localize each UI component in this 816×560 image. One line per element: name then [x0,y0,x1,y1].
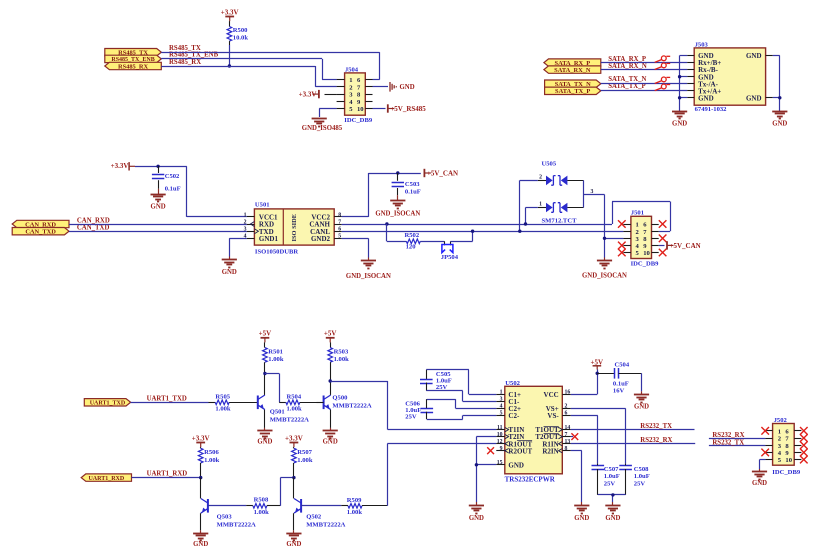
ground GND (J503 left) [672,112,687,128]
svg-text:R2IN: R2IN [542,447,558,455]
svg-text:8: 8 [338,212,341,218]
svg-text:2: 2 [565,404,568,410]
svg-text:9: 9 [500,446,503,452]
wire J504 pin10 to +5V_RS485 [373,108,386,110]
junction GND tap J501 pin3 [603,237,606,240]
resistor R506 [198,448,219,477]
no-connect X U502 R2OUT [487,447,494,454]
svg-text:MMBT2222A: MMBT2222A [332,402,371,409]
svg-text:Q501: Q501 [270,409,285,416]
svg-text:J503: J503 [695,42,709,49]
svg-text:R502: R502 [405,232,420,239]
junction C503 tap [396,171,399,174]
power +5V (U502) [591,358,604,369]
svg-text:10: 10 [785,457,792,464]
svg-text:VCC: VCC [544,391,559,399]
svg-text:15: 15 [497,460,503,466]
net label CAN_RXD [77,217,110,224]
svg-text:3: 3 [500,397,503,403]
port UART1_TXD [84,399,130,407]
svg-text:R508: R508 [254,497,269,504]
svg-text:0.1uF: 0.1uF [613,381,629,388]
transistor Q502 [294,478,346,531]
net label UART1_TXD [147,395,187,402]
capacitor C504 [597,362,641,395]
capacitor C502 [152,166,181,192]
net label RS232_RX (J502) [712,432,744,439]
svg-text:J504: J504 [345,66,359,73]
svg-text:4: 4 [500,404,503,410]
power +3.3V to J504 pin3 [299,90,337,99]
junction Q503 collector node [199,476,202,479]
svg-text:J501: J501 [631,210,644,217]
svg-text:RS485_RX: RS485_RX [118,63,149,70]
svg-text:CAN_RXD: CAN_RXD [77,217,110,224]
port CAN_TXD [12,228,69,236]
svg-text:GND: GND [672,121,687,128]
svg-text:+5V_CAN: +5V_CAN [670,242,701,250]
svg-text:C508: C508 [634,466,649,473]
svg-text:67491-1032: 67491-1032 [695,106,728,113]
svg-text:1.00k: 1.00k [287,406,303,413]
svg-text:5: 5 [338,234,341,240]
junction CANH to R502 [385,222,388,225]
junction J503 GND left pin7 [678,96,681,99]
svg-text:R504: R504 [287,393,302,400]
svg-text:6: 6 [338,227,341,233]
op-amp U502 TRS232ECPWR body [496,380,571,483]
wire R508 to Q502 collector node [280,478,294,506]
svg-text:ISO1050DUBR: ISO1050DUBR [255,248,298,255]
ground GND (J502) [752,469,767,487]
svg-text:IDC_DB9: IDC_DB9 [344,117,373,124]
wire R500 to RS485_RX [229,45,231,66]
wire SATA_TX_N to J503 [601,83,687,85]
svg-text:C2-: C2- [508,412,520,420]
svg-text:14: 14 [565,425,571,431]
svg-text:Q503: Q503 [217,514,233,521]
svg-text:Q500: Q500 [332,394,348,401]
wire SATA_RX_N to J503 [601,69,687,71]
resistor R503 [328,348,349,381]
net label SATA_RX_N [608,63,647,70]
capacitor C505 [420,370,496,402]
svg-text:GND: GND [151,203,166,210]
svg-text:UART1_TXD: UART1_TXD [90,401,126,407]
op-amp U501 ISO1050DUBR body [244,201,342,255]
power +5V_CAN (top) [424,169,458,178]
svg-text:GND: GND [634,404,649,411]
svg-text:1.00k: 1.00k [334,356,350,363]
transistor U505 (TVS bottom pair) [538,202,584,225]
svg-text:GND: GND [752,480,767,487]
no-connect X J502 pin1 [761,427,769,435]
svg-text:GND: GND [698,94,714,102]
svg-text:TRS232ECPWR: TRS232ECPWR [505,475,556,483]
ground GND (Q502) [286,530,301,548]
port RS485_TX_ENB [105,55,162,63]
svg-text:+5V: +5V [324,330,337,338]
power +5V_RS485 [388,104,426,113]
port SATA_TX_N [545,80,601,88]
wire SATA_TX_P to J503 [601,90,687,92]
svg-text:JP504: JP504 [441,254,459,261]
svg-text:25V: 25V [634,480,646,487]
ground GND_ISOCAN (C503) [375,195,420,217]
svg-text:U505: U505 [542,161,557,168]
net label UART1_RXD [147,471,188,478]
wire VS- to C507 [571,416,598,464]
svg-text:C503: C503 [405,181,420,188]
junction C507/C508 GND [611,493,614,496]
ground GND (Q500) [323,428,338,446]
svg-text:UART1_RXD: UART1_RXD [88,476,124,482]
wire CANL [342,231,624,233]
wire U501 VCC2 to +5V_CAN rail [342,173,421,217]
svg-text:1: 1 [349,77,352,84]
diff-pair crossover marks TX [655,77,671,91]
svg-text:R503: R503 [334,349,349,356]
svg-text:1.00k: 1.00k [297,457,313,464]
svg-text:GND: GND [508,461,524,469]
wire U505 pin3 to GND_ISOCAN and J501 pin3 [584,180,624,257]
transistor Q501 [258,374,309,428]
svg-text:10: 10 [643,250,650,257]
svg-text:16V: 16V [613,388,625,395]
svg-text:7: 7 [338,219,341,225]
net label SATA_TX_P [608,83,646,90]
svg-text:0.1uF: 0.1uF [165,186,181,193]
junction U505 pin1 CANH [524,222,527,225]
jumper JP504 [441,241,459,261]
svg-text:GND_ISO485: GND_ISO485 [302,125,343,132]
ground GND_ISO485 [302,119,343,132]
svg-text:1: 1 [539,202,542,208]
port RS485_RX [105,62,162,70]
svg-text:+3.3V: +3.3V [111,162,129,170]
wire JP504 to CANL [450,231,472,241]
junction U505 pin2 CANL [518,230,521,233]
wire SATA_RX_P to J503 [601,62,687,64]
no-connect X U502 T2OUT [571,433,578,440]
svg-text:U502: U502 [505,380,520,387]
wire RS485_TX to J504 pin6 [161,52,379,79]
svg-text:25V: 25V [604,480,616,487]
svg-text:10: 10 [357,106,364,113]
svg-text:GND_ISOCAN: GND_ISOCAN [375,210,420,217]
svg-text:MMBT2222A: MMBT2222A [270,417,309,424]
wire J503 left GND bus [680,56,688,112]
connector J501 [623,210,659,268]
svg-text:SM712.TCT: SM712.TCT [542,218,578,225]
wire U501 GND1 to GND [229,238,247,256]
wire J504 pin5 to GND_ISO485 [319,109,336,118]
no-connect X J501 pin8 [659,235,667,243]
junction C504 tap [596,372,599,375]
svg-text:1.00k: 1.00k [215,406,231,413]
svg-text:+3.3V: +3.3V [299,91,317,99]
wire R1IN RS232_RX [571,443,695,445]
svg-text:1: 1 [636,222,639,229]
transistor U505 SM712.TCT (TVS top pair) [538,161,584,186]
power +3.3V (R507) [285,434,303,448]
svg-text:3: 3 [591,189,594,195]
svg-text:MMBT2222A: MMBT2222A [217,522,256,529]
svg-text:R509: R509 [347,497,362,504]
wire U501 GND2 to GND_ISOCAN [342,238,369,257]
svg-text:ISO SIDE: ISO SIDE [291,214,298,242]
wire RS485_TX_ENB to J504 pin1 [161,59,336,80]
svg-text:13: 13 [565,439,571,445]
wire UART1_TXD to R505 [131,402,209,404]
svg-text:3: 3 [244,227,247,233]
capacitor C506 [405,399,496,421]
svg-text:CAN_TXD: CAN_TXD [77,224,110,231]
power +3.3V (R506) [192,434,210,448]
junction Q501 collector [263,372,266,375]
junction J503 GND right [778,96,781,99]
wire J504 pin7 to GND [373,86,389,88]
power +3.3V (CAN section) [111,162,135,170]
svg-text:11: 11 [497,425,503,431]
svg-text:12: 12 [497,439,503,445]
svg-text:R501: R501 [268,349,283,356]
resistor R502 [387,224,445,251]
svg-text:120: 120 [406,244,417,251]
port SATA_RX_N [544,66,601,74]
port RS485_TX [105,49,162,57]
wire VCC to +5V [571,370,598,395]
wire Q501 collector to R504 [265,374,280,403]
svg-text:Q502: Q502 [306,514,322,521]
resistor R507 [292,448,313,477]
resistor R500 [227,27,248,46]
ground GND (Q503) [193,530,208,548]
transistor Q500 [317,381,372,428]
svg-text:SATA_RX_N: SATA_RX_N [554,67,591,74]
svg-text:SATA_RX_N: SATA_RX_N [608,63,647,70]
svg-text:+3.3V: +3.3V [192,434,210,442]
svg-text:IDC_DB9: IDC_DB9 [772,469,801,476]
net label RS485_TX_ENB [169,52,219,59]
no-connect X J501 pin4 [618,242,626,250]
ground GND (R2IN) [574,502,589,522]
svg-text:2: 2 [539,174,542,180]
wire J503 right GND bus [773,56,780,112]
svg-text:GND: GND [772,121,787,128]
port SATA_TX_P [545,87,601,95]
svg-text:5: 5 [500,411,503,417]
svg-text:10.0k: 10.0k [233,34,249,41]
wire UART1_RXD to Q503 node [132,477,201,479]
net label CAN_TXD [77,224,110,231]
ground GND (J503 right) [772,112,787,128]
power +5V (R501) [259,330,272,348]
connector J504 [337,66,373,124]
wire J501 pin9 to +5V_CAN [659,245,665,247]
wire T2IN to GND node [476,437,496,465]
no-connect X J502 pins6-10 [800,427,808,463]
svg-text:1.00k: 1.00k [347,509,363,516]
svg-text:C507: C507 [604,466,619,473]
svg-text:UART1_RXD: UART1_RXD [147,471,188,478]
svg-text:J502: J502 [774,417,788,424]
ground GND (U501 GND1) [222,257,237,277]
wire GND pin15 [476,465,496,503]
svg-text:MMBT2222A: MMBT2222A [306,522,345,529]
svg-text:1.00k: 1.00k [268,356,284,363]
svg-text:GND2: GND2 [311,235,331,243]
no-connect X J501 pin1 [618,220,626,228]
junction RS485_RX pullup [228,64,231,67]
svg-text:GND: GND [323,438,338,445]
svg-text:IDC_DB9: IDC_DB9 [631,261,660,268]
svg-text:1.0uF: 1.0uF [604,473,620,480]
svg-text:GND1: GND1 [259,235,279,243]
svg-text:10: 10 [497,432,503,438]
net label SATA_RX_P [608,56,646,63]
svg-text:GND: GND [400,84,415,91]
junction C502 tap [156,165,159,168]
capacitor C508 [619,464,649,495]
svg-text:CAN_TXD: CAN_TXD [25,229,56,236]
svg-text:VS-: VS- [547,412,559,420]
ground GND (C507/C508) [605,502,620,522]
svg-text:RS232_RX: RS232_RX [640,437,672,444]
svg-text:SATA_RX_P: SATA_RX_P [608,56,646,63]
junction CANL to R502 [471,230,474,233]
svg-text:R507: R507 [297,449,312,456]
svg-text:R500: R500 [233,27,248,34]
svg-text:SATA_TX_P: SATA_TX_P [608,83,646,90]
capacitor C503 [392,173,421,195]
wire CAN_TXD to U501 [69,231,247,233]
svg-text:1: 1 [500,390,503,396]
transistor Q503 [201,478,257,531]
wire C507 C508 commons [598,495,626,503]
resistor R508 [208,497,281,516]
net label SATA_TX_N [608,76,646,83]
svg-text:GND: GND [605,515,620,522]
svg-text:1.00k: 1.00k [254,509,270,516]
port UART1_RXD [81,474,131,482]
port CAN_RXD [12,220,69,228]
ground GND_ISOCAN (U501 GND2) [346,258,391,280]
svg-text:1.0uF: 1.0uF [634,473,650,480]
wire T1OUT RS232_TX [571,429,695,431]
wire U505 pin1 to CANH [526,208,538,225]
no-connect X J501 pin5 [618,249,626,257]
resistor R504 [279,393,316,412]
svg-text:SATA_TX_N: SATA_TX_N [608,76,646,83]
wire CAN_RXD to U501 [69,224,247,226]
no-connect X J501 pin10 [659,249,667,257]
svg-text:R506: R506 [204,449,219,456]
wire J502 pin5 to GND [760,460,766,470]
svg-text:+3.3V: +3.3V [221,8,239,16]
svg-text:7: 7 [565,432,568,438]
junction Q500 collector [329,379,332,382]
svg-text:R505: R505 [215,393,230,400]
svg-text:GND: GND [193,541,208,548]
net label RS232_TX (U502) [640,423,672,430]
svg-text:C502: C502 [165,173,180,180]
connector J502 [765,417,801,476]
svg-text:25V: 25V [405,414,417,421]
svg-text:RS232_TX: RS232_TX [640,423,672,430]
ground GND_ISOCAN (J501) [582,258,627,280]
resistor R505 [209,393,258,412]
svg-text:R2OUT: R2OUT [508,447,532,455]
net label RS485_TX [169,45,201,52]
wire R2IN to GND [571,451,582,503]
power +5V (R503) [324,330,337,348]
resistor R501 [263,348,284,374]
svg-text:GND: GND [257,438,272,445]
wire VS+ to C508 [571,408,626,463]
svg-text:C504: C504 [615,362,630,369]
svg-text:RS232_TX: RS232_TX [712,439,744,446]
no-connect X J501 pin6 [659,220,667,228]
ground GND (C502) [151,189,166,211]
wire RS232_TX to J502 pin3 [709,445,766,447]
wire RS232_RX to J502 pin2 [709,438,766,440]
svg-text:8: 8 [565,446,568,452]
svg-text:GND: GND [746,52,762,60]
ground GND (Q501) [257,428,272,446]
junction J503 GND left pin4 [678,75,681,78]
svg-text:GND_ISOCAN: GND_ISOCAN [582,272,627,279]
diff-pair crossover marks RX [655,56,671,70]
net label RS485_RX [169,59,201,66]
svg-text:GND: GND [746,94,762,102]
svg-text:1: 1 [244,212,247,218]
wire CANH [342,202,671,232]
svg-text:2: 2 [244,219,247,225]
wire +3.3V rail to U501 VCC1 [135,166,247,217]
svg-text:RS232_RX: RS232_RX [712,432,744,439]
svg-text:16: 16 [565,390,571,396]
wire Q500 collector to U502 T1IN [330,381,496,430]
svg-text:+5V_CAN: +5V_CAN [427,169,458,177]
svg-text:GND: GND [574,515,589,522]
svg-text:RS485_RX: RS485_RX [169,59,201,66]
junction Q502 collector node [292,476,295,479]
svg-text:+3.3V: +3.3V [285,434,303,442]
svg-text:+5V_RS485: +5V_RS485 [390,105,426,113]
connector J503 [687,42,773,114]
port SATA_RX_P [544,59,601,67]
svg-text:1.00k: 1.00k [204,457,220,464]
power +5V_CAN (J501) [667,241,701,250]
svg-text:25V: 25V [436,384,448,391]
svg-text:0.1uF: 0.1uF [405,188,421,195]
svg-text:GND: GND [286,541,301,548]
svg-text:GND: GND [469,515,484,522]
wire R509 to U502 R1OUT [387,444,496,506]
svg-text:U501: U501 [255,201,270,208]
svg-text:UART1_TXD: UART1_TXD [147,395,187,402]
svg-text:GND_ISOCAN: GND_ISOCAN [346,273,391,280]
net label RS232_TX (J502) [712,439,744,446]
resistor R509 [301,497,387,516]
junction GND/T2IN [475,463,478,466]
ground GND (C504) [634,391,649,410]
power +3.3V (R500 pullup) [221,8,239,26]
capacitor C507 [592,464,620,495]
wire U505 pin2 to CANL [520,180,538,231]
net label RS232_RX (U502) [640,437,672,444]
